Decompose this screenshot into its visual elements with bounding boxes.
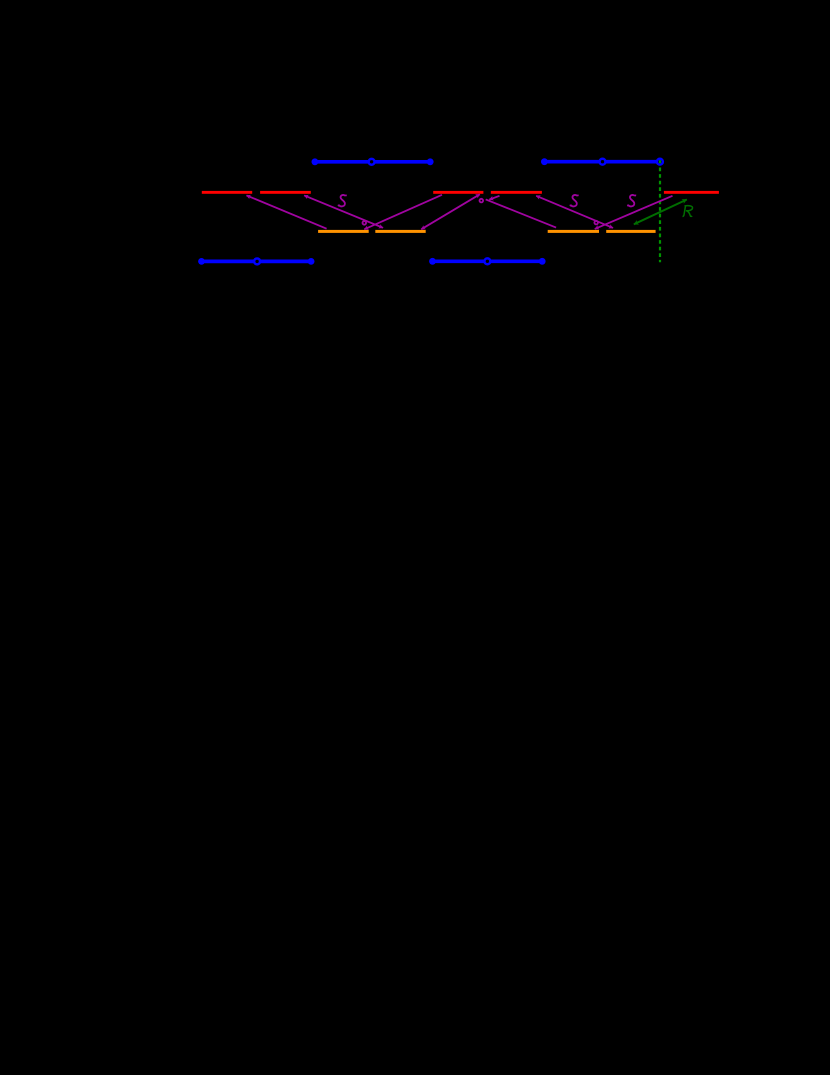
purple point circle middle bbox=[480, 199, 484, 203]
purple point circle right bbox=[594, 221, 598, 225]
purple arrow A3 bbox=[364, 195, 442, 230]
label S2 bbox=[570, 195, 578, 207]
blue segment A (top left) bbox=[312, 158, 434, 165]
label S3 bbox=[627, 195, 635, 207]
green dashed vertical line bbox=[659, 168, 661, 263]
red interval R2 bbox=[260, 191, 311, 194]
red interval R3 bbox=[433, 191, 483, 194]
red interval R4 bbox=[491, 191, 542, 194]
purple short arrow near R4 left bbox=[489, 196, 499, 200]
blue segment C (bottom left) bbox=[198, 258, 314, 265]
green dash visible in open endpoint hole bbox=[659, 160, 661, 163]
purple arrow A1 bbox=[247, 195, 327, 228]
blue segment D (bottom middle) bbox=[429, 258, 545, 265]
orange interval O1 bbox=[318, 230, 369, 233]
label R bbox=[683, 206, 693, 217]
green arrow R (double) bbox=[634, 200, 687, 225]
orange interval O3 bbox=[548, 230, 599, 233]
purple arrow A8 bbox=[595, 196, 673, 229]
purple arrow A2 (double) bbox=[304, 195, 383, 227]
purple arrow A4 (double) bbox=[421, 194, 480, 229]
red interval R5 bbox=[664, 191, 719, 194]
purple point circle left bbox=[363, 221, 367, 225]
orange interval O4 bbox=[606, 230, 655, 233]
red interval R1 bbox=[202, 191, 252, 194]
purple line A6 bbox=[486, 199, 556, 227]
orange interval O2 bbox=[375, 230, 425, 233]
label S1 bbox=[338, 195, 346, 207]
purple arrow A7 (double) bbox=[536, 196, 613, 228]
blue segment B (top right) bbox=[541, 158, 663, 165]
